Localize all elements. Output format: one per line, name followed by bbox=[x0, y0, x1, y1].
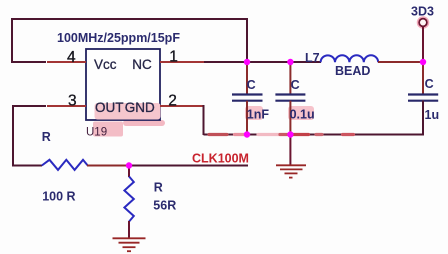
junction node E (CLK100M) bbox=[126, 162, 132, 168]
svg-text:CLK100M: CLK100M bbox=[192, 152, 249, 166]
wire: node E to CLK100M end bbox=[129, 165, 248, 167]
resistor R (56R) bbox=[124, 177, 133, 222]
svg-text:2: 2 bbox=[168, 92, 177, 109]
capacitor C (1u) bbox=[408, 62, 438, 135]
watermark dashes on bus bbox=[209, 133, 354, 136]
svg-text:1: 1 bbox=[169, 49, 178, 66]
resistor R (100R) bbox=[42, 160, 88, 170]
svg-text:4: 4 bbox=[67, 49, 76, 66]
wire: left vertical lower bbox=[12, 105, 14, 167]
junction node B2 (bus) bbox=[287, 131, 293, 137]
svg-text:U19: U19 bbox=[86, 126, 107, 138]
wire: OUT net horizontal bbox=[12, 105, 46, 107]
svg-text:56R: 56R bbox=[153, 199, 176, 213]
wire: node E down to resistor 56R bbox=[128, 166, 130, 178]
pin 2 (GND) bbox=[160, 105, 205, 107]
junction node A2 (bus) bbox=[244, 131, 250, 137]
svg-text:C: C bbox=[425, 77, 434, 91]
wire: pin2 vertical drop bbox=[203, 105, 205, 135]
svg-text:R: R bbox=[42, 130, 51, 144]
wire: inductor to node D bbox=[378, 61, 424, 63]
wire: pin1 to node A bbox=[204, 61, 247, 63]
wire: to resistor 100R bbox=[12, 165, 42, 167]
pin 4 (Vcc) bbox=[47, 61, 86, 63]
capacitor C (0.1u) bbox=[275, 62, 305, 135]
power port 3D3 bbox=[418, 17, 429, 28]
svg-text:NC: NC bbox=[132, 57, 152, 72]
wire: top feedback loop horizontal bbox=[12, 18, 247, 20]
capacitor C (1nF) bbox=[232, 62, 263, 135]
watermark dash below box bbox=[123, 120, 165, 126]
wire: 1u cap bottom to bus bbox=[422, 101, 424, 135]
svg-text:0.1u: 0.1u bbox=[290, 108, 315, 122]
svg-text:100MHz/25ppm/15pF: 100MHz/25ppm/15pF bbox=[57, 31, 180, 45]
svg-text:Vcc: Vcc bbox=[94, 57, 117, 72]
wire: left vertical upper bbox=[11, 18, 13, 63]
svg-text:C: C bbox=[247, 78, 256, 92]
svg-text:R: R bbox=[154, 180, 163, 194]
svg-text:3: 3 bbox=[68, 92, 77, 109]
watermark band behind OUT GND bbox=[95, 103, 161, 120]
svg-text:100 R: 100 R bbox=[42, 190, 75, 204]
junction node B bbox=[287, 59, 293, 65]
svg-text:OUT: OUT bbox=[95, 100, 124, 115]
svg-text:C: C bbox=[291, 78, 300, 92]
wire: node A to node B bbox=[247, 61, 290, 63]
junction node D bbox=[420, 59, 426, 65]
wire: node B to inductor bbox=[290, 61, 321, 63]
wire: 100R to node E bbox=[87, 165, 129, 167]
wire: ground bus horizontal bbox=[204, 134, 425, 136]
wire: vertical at node A down to pin1 row bbox=[246, 18, 248, 62]
wire: 3D3 port to node D bbox=[422, 27, 424, 62]
oscillator U19 body bbox=[86, 49, 160, 120]
ground (56R) bbox=[113, 238, 146, 251]
watermark blob behind 1nF bbox=[245, 106, 263, 120]
pin 1 (NC) bbox=[160, 61, 204, 63]
svg-text:L7: L7 bbox=[305, 51, 320, 65]
pin 3 (OUT) bbox=[47, 105, 86, 107]
svg-text:GND: GND bbox=[125, 100, 155, 115]
inductor L7 coil bbox=[321, 55, 379, 62]
svg-text:1nF: 1nF bbox=[247, 108, 270, 122]
svg-text:1u: 1u bbox=[425, 108, 440, 122]
svg-text:3D3: 3D3 bbox=[411, 5, 434, 19]
svg-text:BEAD: BEAD bbox=[335, 64, 370, 78]
watermark blob behind 0.1u bbox=[288, 106, 314, 120]
junction node A bbox=[244, 59, 250, 65]
wire: pin4 net segment bbox=[11, 61, 46, 63]
watermark band behind U19 bbox=[93, 122, 123, 137]
wire: node C2 down to ground bbox=[289, 135, 291, 166]
wire: 56R to ground bbox=[128, 221, 130, 239]
ground (bus) bbox=[276, 165, 306, 177]
